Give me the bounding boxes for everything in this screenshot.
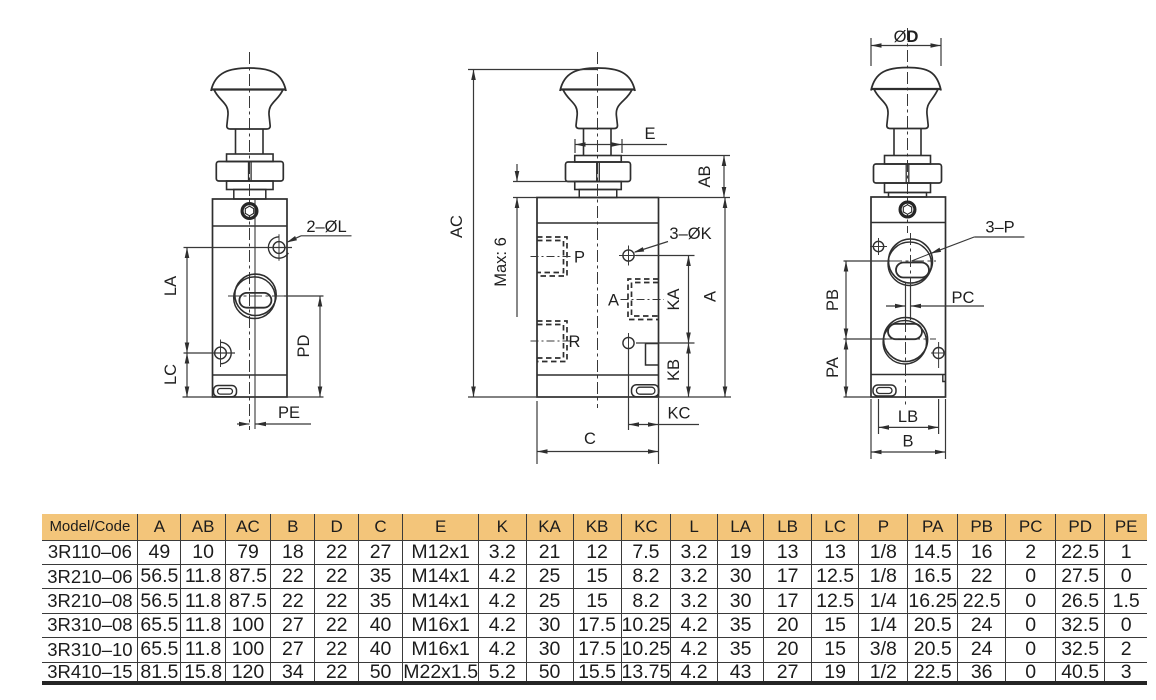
centerline (left view) [249,52,251,430]
dimension PE [237,423,250,425]
bottom port (right view) [884,318,928,362]
dimension PC [886,305,906,307]
extension/centerline top port [844,260,891,262]
svg-text:LC: LC [162,364,180,385]
svg-text:PD: PD [295,334,313,357]
hole 3-OK bottom (middle view) [623,337,634,348]
svg-text:2–ØL: 2–ØL [306,218,346,236]
nut stack (middle view) [575,156,622,163]
svg-text:Max: 6: Max: 6 [492,237,510,287]
valve body (left view) [213,199,288,397]
top screw (left view) [242,204,257,219]
dimension PB [845,261,847,339]
svg-text:A: A [702,291,720,302]
port P centerline [531,256,572,258]
knob (left view) [211,68,286,91]
knob (right view) [871,68,941,91]
dimension PD [319,296,321,397]
centerline (right view) [907,28,909,233]
mounting hole bottom-right (right view) [933,348,944,359]
dimension LB [878,399,880,434]
port R centerline [531,340,572,342]
top port 3-P (right view) [889,239,933,283]
bottom slot (middle view) [632,385,659,397]
svg-text:LB: LB [898,408,918,426]
extension line LA top / hole crosshair [184,247,293,249]
svg-text:KB: KB [665,359,683,381]
svg-text:3–ØK: 3–ØK [669,225,711,243]
notch right edge (right view) [943,375,946,382]
svg-text:KC: KC [668,405,691,423]
mounting hole top-left (right view) [873,241,883,251]
valve body (right view) [871,197,946,397]
dimension C [536,401,538,464]
svg-text:A: A [608,292,619,310]
dimension B [870,399,872,459]
dimension AB [622,155,730,157]
main port (left view) [235,274,276,315]
valve body (middle view) [537,198,659,398]
svg-text:ØD: ØD [894,28,919,46]
port A dashed (middle view) [628,279,659,320]
knob (middle view) [560,68,635,91]
port R dashed (middle view) [537,321,567,362]
svg-text:PE: PE [278,404,300,422]
hole 3-OK top (middle view) [623,250,634,261]
dimension table [42,514,1147,685]
port crosshair (left view) [228,295,284,297]
spool line (left view) [254,199,256,429]
dimension E [574,139,576,153]
dimension KA [688,256,690,344]
nut stack (right view) [885,156,931,165]
centerline (middle view) [597,52,599,408]
panel nut stack (left view) [227,154,273,162]
extension/centerline bottom port [844,338,887,340]
dimension Max 6 [513,181,576,183]
lower mounting hole (left view) [215,347,227,359]
svg-text:AC: AC [448,215,466,238]
dimension KC [628,350,630,430]
bottom slot (left view) [214,386,237,397]
mounting hole 2-OL (left view) [273,242,285,254]
svg-text:E: E [644,125,655,143]
svg-text:B: B [902,433,913,451]
body seam lower (left view) [213,374,288,376]
dimension OD [870,38,872,66]
body seam upper (right view) [871,222,946,224]
svg-text:LA: LA [162,276,180,296]
svg-text:C: C [584,430,596,448]
svg-text:P: P [574,249,585,267]
body seam upper (left view) [213,225,288,227]
body seam lower (right view) [871,374,946,376]
notch right edge (middle view) [646,344,659,366]
port A centerline [621,299,665,301]
dimension LC [186,353,188,397]
dimension LA [186,248,188,354]
top screw (right view) [900,202,915,217]
svg-text:KA: KA [665,288,683,310]
svg-text:PA: PA [824,357,842,378]
extension body bottom left (right view) [844,396,872,398]
svg-text:AB: AB [696,165,714,187]
body seam lower (middle view) [537,374,659,376]
svg-text:PC: PC [952,289,975,307]
extension line body bottom (left view) [183,396,213,398]
port center verticals PC [910,233,912,283]
body seam upper (middle view) [537,222,659,224]
svg-text:3–P: 3–P [985,219,1014,237]
dimension A right [724,198,726,398]
bottom slot (right view) [873,385,896,396]
extension lines KA [636,255,695,257]
extension line LA bottom / hole crosshair [184,352,236,354]
svg-text:R: R [569,333,581,351]
svg-text:PB: PB [824,289,842,311]
dimension PA [845,339,847,397]
port P dashed (middle view) [537,237,567,276]
extension line PD top [284,295,324,297]
dimension AC [468,69,598,71]
dimension KB [688,343,690,397]
